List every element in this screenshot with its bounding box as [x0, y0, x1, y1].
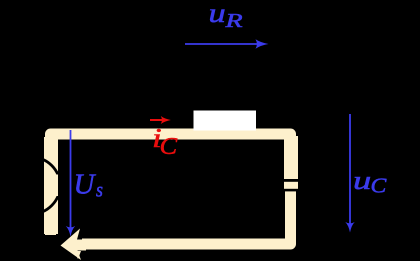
svg-text:C: C — [160, 132, 179, 160]
svg-text:R: R — [224, 10, 242, 32]
svg-text:C: C — [371, 173, 388, 197]
svg-text:s: s — [96, 179, 103, 202]
svg-text:U: U — [74, 168, 97, 200]
svg-text:u: u — [353, 166, 371, 195]
svg-text:u: u — [209, 0, 226, 28]
